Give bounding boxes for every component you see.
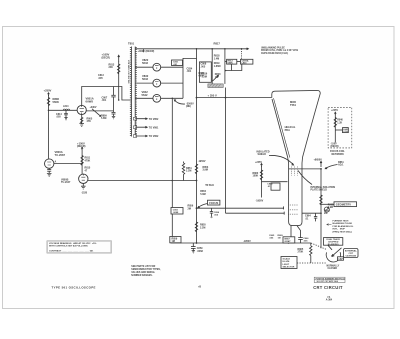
svg-text:561 CRT CKT APR 1964: 561 CRT CKT APR 1964 — [317, 280, 339, 283]
box DUAL TRACE — [324, 238, 343, 246]
capacitor below V800A — [47, 168, 51, 173]
junction — [196, 207, 198, 209]
inductor L814 — [63, 109, 70, 110]
wire PDA anode line — [289, 168, 322, 170]
svg-text:NETWORK: NETWORK — [332, 153, 345, 156]
wire box drops — [226, 64, 242, 70]
node +250V — [48, 93, 50, 96]
wire tube2 out — [161, 82, 183, 84]
wire lower grid to geom — [302, 212, 321, 214]
svg-text:CATHODE: CATHODE — [345, 255, 356, 258]
svg-text:CAP: CAP — [338, 258, 343, 261]
wire tap tube2 — [135, 82, 153, 84]
wire HV bus vertical — [183, 58, 197, 98]
junction — [320, 168, 322, 170]
junction — [196, 97, 198, 99]
wire +400V top tap — [135, 48, 248, 50]
wire focus net vertical — [334, 115, 336, 143]
svg-text:NUMBER RANGES.: NUMBER RANGES. — [131, 274, 153, 277]
title block box — [314, 277, 345, 282]
heater tap box 3 — [133, 135, 136, 138]
svg-text:WITH CONTROLS SET AS FOLLOWS:: WITH CONTROLS SET AS FOLLOWS: — [49, 245, 88, 248]
CRT funnel — [272, 90, 320, 214]
resistor R808 — [47, 98, 49, 106]
svg-text:+8650V: +8650V — [314, 159, 323, 162]
svg-text:.005: .005 — [56, 115, 61, 118]
heater arrow 2 — [135, 126, 147, 128]
svg-text:VOLTAGE READINGS ARE AT 1: VOLTAGE READINGS ARE AT 100 VDC +5% — [49, 242, 96, 245]
heater arrow 3 — [135, 135, 147, 137]
svg-text:.001: .001 — [102, 99, 107, 102]
svg-text:T801: T801 — [128, 42, 135, 46]
wire vertical x172.3 — [171, 98, 173, 236]
svg-text:-1950V: -1950V — [243, 240, 251, 243]
node +150V — [81, 147, 83, 150]
potentiometer GEOM ADJ — [324, 207, 329, 212]
svg-text:+225V: +225V — [331, 109, 338, 112]
wire geometry vertical — [320, 169, 322, 248]
label title small — [316, 277, 345, 283]
potentiometer arrow R806 — [92, 109, 101, 117]
dashed drop C812 — [241, 49, 243, 60]
tube V800B elements — [81, 174, 85, 180]
jumper arc — [326, 252, 340, 262]
capacitor C814 — [64, 110, 68, 120]
svg-text:2.2M: 2.2M — [186, 170, 191, 173]
svg-text:-1520: -1520 — [81, 192, 88, 195]
leader blanking note — [327, 224, 332, 226]
svg-text:TO V862: TO V862 — [149, 135, 159, 138]
transformer T801 right winding — [135, 47, 136, 137]
svg-text:2.2M: 2.2M — [200, 226, 205, 229]
dashed scale illum line — [297, 262, 326, 264]
ground — [79, 124, 84, 127]
junction — [172, 180, 174, 182]
CRT neck electrodes dashed — [290, 205, 298, 214]
tube V800B envelope — [79, 174, 88, 183]
resistor R855 — [195, 222, 197, 232]
focus coil L840 — [343, 128, 349, 133]
svg-text:5.6M: 5.6M — [101, 117, 106, 120]
capacitor C813a — [111, 87, 115, 111]
network +245V vertical — [261, 164, 263, 198]
svg-text:(DECR): (DECR) — [102, 57, 111, 60]
tube V822 envelope — [153, 63, 161, 71]
svg-text:+ 350 V: + 350 V — [208, 93, 218, 97]
tube V800A elements — [47, 162, 51, 165]
wire R813 drop — [118, 61, 120, 100]
box C808 R816 — [199, 62, 211, 82]
leader FOCUS — [198, 204, 208, 208]
node +100V arrow — [118, 55, 120, 61]
svg-text:POSITIVE NUMBERS SEE PG A1: POSITIVE NUMBERS SEE PG A1 — [316, 277, 345, 280]
svg-text:GRAT: GRAT — [285, 240, 292, 243]
wire tap tube3 — [135, 97, 153, 99]
tube V842 plate — [155, 97, 159, 100]
svg-text:1.86M: 1.86M — [214, 65, 221, 68]
label HELICAL PDA — [285, 126, 296, 132]
svg-text:L841: L841 — [242, 62, 248, 65]
heater arrow 1 — [135, 118, 147, 120]
svg-text:3.9M: 3.9M — [203, 169, 208, 172]
node +8650V — [320, 161, 322, 167]
svg-text:TO V861: TO V861 — [149, 126, 159, 129]
svg-text:6AW8: 6AW8 — [86, 100, 94, 104]
svg-text:1.2K: 1.2K — [337, 122, 342, 124]
box GEOMETRY — [334, 202, 357, 207]
svg-text:HTR WDG 6.3V 2KV INS: HTR WDG 6.3V 2KV INS — [127, 60, 129, 84]
tube V800A envelope — [45, 159, 54, 168]
junction — [81, 163, 83, 165]
label DUAL TRACE — [326, 238, 340, 246]
svg-text:INTERNAL ISOLATION: INTERNAL ISOLATION — [311, 186, 336, 189]
svg-text:5642: 5642 — [142, 61, 148, 65]
capacitor below junction — [112, 111, 116, 119]
svg-text:5642: 5642 — [142, 93, 148, 97]
wire +150V drop — [81, 149, 83, 174]
svg-text:ILLUM.: ILLUM. — [283, 261, 291, 263]
tube V801B envelope — [77, 105, 86, 114]
box C812 — [241, 59, 253, 64]
svg-text:INT'L SKIP: INT'L SKIP — [333, 229, 346, 231]
wire base stub B867 — [290, 226, 292, 237]
junction — [172, 98, 174, 100]
junction — [241, 48, 243, 50]
svg-text:2M: 2M — [324, 212, 327, 215]
svg-text:COIL: COIL — [343, 131, 349, 133]
neck anode dashes — [292, 167, 298, 176]
box C860 — [271, 183, 280, 190]
svg-text:.005: .005 — [201, 66, 206, 69]
insulated shield leader — [269, 155, 294, 165]
capacitor C859 — [191, 243, 196, 253]
resistor R860 — [260, 170, 262, 180]
resistor R805 — [81, 117, 83, 123]
svg-text:270K: 270K — [298, 251, 304, 254]
svg-text:5642: 5642 — [142, 77, 148, 81]
potentiometer arrow R820 — [213, 75, 219, 81]
svg-text:PLATE SHIELD: PLATE SHIELD — [311, 188, 328, 191]
svg-text:TU-2087: TU-2087 — [55, 153, 66, 157]
wire vertical x196.5 — [196, 49, 198, 243]
tube V832 envelope — [153, 79, 161, 87]
tube V832 plate — [155, 82, 159, 85]
svg-text:T561: T561 — [290, 103, 296, 107]
svg-text:(NE): (NE) — [186, 105, 191, 108]
svg-text:L814: L814 — [63, 105, 69, 108]
svg-text:PDA: PDA — [285, 129, 290, 132]
wire grid line upper — [197, 207, 284, 209]
pin tick upper — [283, 206, 285, 209]
svg-text:560K: 560K — [53, 100, 59, 104]
svg-text:SELECTOR: SELECTOR — [283, 267, 295, 269]
box SCALE ILLUM — [281, 257, 297, 269]
plate shield leader — [298, 171, 312, 185]
box R812 — [227, 59, 237, 64]
label voltage box — [49, 242, 96, 253]
svg-text:TYPE 561 OSCILLOSCOPE: TYPE 561 OSCILLOSCOPE — [52, 285, 96, 289]
svg-text:1M: 1M — [278, 237, 281, 239]
svg-text:FURNISH HIGH: FURNISH HIGH — [333, 221, 349, 223]
hatched box graticule — [208, 84, 223, 88]
leader R861 ADJ — [325, 165, 337, 169]
leader dual trace — [328, 245, 332, 250]
svg-text:7A: 7A — [327, 296, 330, 299]
svg-text:(DECR): (DECR) — [331, 146, 339, 148]
svg-text:TO V852: TO V852 — [149, 118, 159, 121]
svg-text:GEOMETRY: GEOMETRY — [336, 203, 351, 207]
wire plate B to divider — [88, 180, 197, 182]
tube V822 plate — [155, 66, 159, 69]
transformer T801 left winding — [131, 47, 132, 137]
wire tube1 out — [161, 66, 183, 68]
svg-text:SEMICONDUCTOR TYPES,: SEMICONDUCTOR TYPES, — [131, 269, 161, 271]
resistor R813 — [118, 64, 120, 74]
wire cathode — [81, 115, 83, 124]
wire geometry branch — [321, 203, 334, 205]
svg-text:FOR BLANK/ING EL: FOR BLANK/ING EL — [333, 225, 354, 228]
svg-text:.0068: .0068 — [197, 250, 204, 253]
wire tube right pin — [86, 110, 113, 112]
svg-text:+B: +B — [198, 286, 201, 288]
svg-text:24K: 24K — [109, 66, 114, 69]
wire tap tube1 — [135, 66, 153, 68]
junction — [225, 97, 227, 99]
svg-text:TU-2047: TU-2047 — [61, 181, 71, 184]
ground — [81, 186, 86, 189]
capacitor C854 — [210, 208, 213, 218]
box C831 — [172, 60, 183, 66]
svg-text:-1950V: -1950V — [256, 199, 264, 202]
svg-text:UNBLANKING PULSE: UNBLANKING PULSE — [261, 46, 285, 49]
wire grid A — [54, 162, 82, 164]
wire +350V line — [197, 97, 272, 99]
svg-text:(FREQ HIGH DIAL): (FREQ HIGH DIAL) — [333, 230, 353, 233]
label EXTERNAL CRT — [345, 249, 357, 257]
svg-text:BLANKING PULSE: BLANKING PULSE — [333, 222, 353, 225]
wire vertical x225.5 — [225, 88, 227, 214]
svg-text:ADJ.: ADJ. — [338, 164, 344, 167]
resistor R853 — [195, 164, 197, 174]
junction — [81, 162, 83, 164]
svg-text:100K: 100K — [253, 175, 259, 178]
svg-text:SCALE: SCALE — [283, 258, 291, 261]
junction — [288, 242, 290, 244]
wire cathode B — [82, 184, 84, 187]
label SCALE ILLUM — [283, 258, 295, 269]
svg-text:.0068: .0068 — [173, 212, 179, 214]
box EXTERNAL CRT CATHODE — [344, 249, 359, 258]
svg-text:1M: 1M — [172, 240, 175, 243]
junction — [196, 180, 198, 182]
wire grid line — [49, 109, 78, 111]
svg-text:FROM CATH., PINS 1 & 2 OF V159: FROM CATH., PINS 1 & 2 OF V159 — [261, 49, 299, 52]
svg-text:+400V (DECR): +400V (DECR) — [138, 50, 155, 53]
svg-text:470K: 470K — [85, 159, 91, 162]
resistor R868 — [320, 195, 322, 205]
wire grid line lower — [226, 212, 285, 215]
box C851 — [171, 208, 183, 215]
jumper contact dot — [331, 255, 333, 257]
svg-text:SHIELD: SHIELD — [258, 154, 267, 156]
tick +400V label — [143, 49, 145, 52]
junction — [196, 242, 198, 244]
svg-text:+250V: +250V — [44, 89, 52, 93]
svg-text:LIGHT: LIGHT — [283, 264, 290, 266]
resistor R811 — [81, 156, 83, 166]
jumper arrow — [332, 248, 342, 256]
heater tap box 1 — [133, 117, 136, 120]
svg-text:1.4M: 1.4M — [214, 57, 219, 60]
wire -1950V bus — [171, 242, 312, 244]
svg-text:SEE PARTS LIST FOR: SEE PARTS LIST FOR — [131, 265, 155, 268]
svg-text:VALUES AND SERIAL: VALUES AND SERIAL — [131, 271, 155, 274]
svg-text:NORMALLY: NORMALLY — [327, 264, 340, 267]
resistor R865 — [310, 243, 312, 263]
CRT inner coating line — [274, 98, 290, 157]
top divider column R818 R819 — [212, 49, 225, 84]
svg-text:A-364: A-364 — [326, 299, 333, 302]
svg-text:5.6M: 5.6M — [200, 193, 205, 196]
svg-text:A: A — [55, 160, 57, 163]
junction — [196, 48, 198, 50]
wire box left — [225, 61, 227, 63]
focus coil network dashed box — [328, 107, 352, 147]
arrow -3500V — [174, 100, 185, 104]
svg-text:R817: R817 — [214, 41, 221, 45]
label tek mark — [326, 296, 333, 302]
dashed strap diagonal — [311, 243, 327, 250]
svg-text:47K: 47K — [87, 120, 92, 123]
junction — [118, 99, 120, 101]
svg-text:EXTERNAL: EXTERNAL — [345, 249, 357, 252]
svg-text:CONTRAST . . . . . . . . . . .: CONTRAST . . . . . . . . . . . . . . . .… — [49, 249, 94, 252]
capacitor C863 — [314, 213, 317, 221]
svg-text:CRT: CRT — [349, 253, 354, 255]
wire focus coil branch — [335, 129, 342, 131]
svg-text:TR BLK: TR BLK — [205, 184, 214, 187]
svg-text:680K: 680K — [228, 63, 234, 65]
svg-text:R840: R840 — [337, 119, 343, 122]
svg-text:INSULATED: INSULATED — [257, 150, 270, 153]
svg-text:.001: .001 — [187, 70, 192, 73]
box FOCUS — [208, 200, 220, 205]
label blanking note — [333, 221, 354, 234]
svg-text:CLOSED: CLOSED — [328, 268, 338, 270]
resistor R840 — [334, 118, 336, 128]
svg-text:FOCUS: FOCUS — [209, 201, 218, 205]
junction — [225, 70, 227, 72]
wire +250V vertical — [48, 95, 50, 159]
tube V842 envelope — [153, 94, 161, 102]
junction — [224, 48, 226, 50]
svg-text:CRT CIRCUIT: CRT CIRCUIT — [313, 285, 343, 290]
wire C860 branch to neck — [262, 181, 288, 183]
box cap jumper — [338, 257, 344, 260]
wire tube3 out — [161, 97, 183, 99]
heater tap box 2 — [133, 126, 136, 129]
box B867 — [283, 237, 295, 243]
wire plate loop — [82, 87, 132, 106]
svg-text:CHPG BASE B204 (CH.1): CHPG BASE B204 (CH.1) — [261, 52, 288, 55]
svg-text:1M: 1M — [215, 76, 218, 79]
svg-text:(DECR): (DECR) — [77, 145, 86, 148]
junction — [211, 48, 213, 50]
box R859 — [170, 237, 181, 243]
svg-text:2M: 2M — [188, 207, 191, 210]
box voltage readings — [47, 241, 112, 253]
svg-text:.005: .005 — [98, 77, 103, 80]
junction — [48, 110, 50, 112]
wire box link — [237, 61, 241, 63]
capacitor C866 — [297, 226, 303, 243]
svg-text:1.5M: 1.5M — [202, 76, 207, 79]
CRT neck rounded bottom — [289, 214, 302, 226]
node +225V focus — [334, 112, 336, 115]
resistor R851 — [182, 162, 184, 181]
svg-text:+245V: +245V — [255, 161, 262, 164]
ground — [47, 173, 52, 176]
svg-text:+330V: +330V — [90, 106, 97, 109]
svg-text:BLANKING: BLANKING — [328, 243, 339, 246]
label parts note — [131, 265, 161, 277]
svg-text:-1950V: -1950V — [198, 160, 206, 163]
tube V801B elements — [80, 105, 84, 114]
